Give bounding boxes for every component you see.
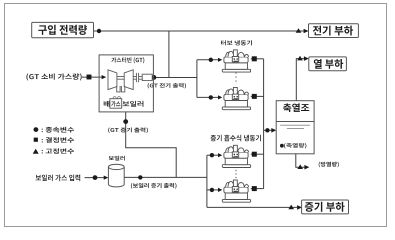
tank stored-heat dot (280, 144, 284, 148)
tank stored-heat label (284, 143, 306, 148)
turbo chiller 1 (222, 50, 250, 72)
box steam load (302, 200, 349, 214)
wire into storage tank (264, 129, 272, 131)
node absorption chiller 2 input (210, 188, 214, 192)
label boiler steam output (131, 183, 177, 189)
node purchased power (97, 29, 101, 33)
HRSG label boiler (123, 101, 144, 107)
marker triangle steam load (288, 205, 294, 210)
tank box (276, 101, 314, 154)
arrow into electric load (304, 29, 309, 34)
wire absorption chiller 2 input (207, 189, 218, 191)
node tank inlet (265, 128, 269, 132)
tank water line (276, 121, 314, 123)
arrow into heat load (304, 56, 309, 61)
wire turbo chiller input bus (196, 60, 198, 98)
node boiler steam output (138, 175, 142, 179)
ellipsis between turbo chillers (235, 72, 237, 82)
arrow into absorption 2 (218, 188, 222, 192)
legend decision-variable text (42, 137, 74, 143)
boiler cylinder (108, 164, 124, 187)
wire tank to heat load (296, 59, 304, 101)
arrow into tank (271, 128, 276, 133)
tank water shading (280, 125, 310, 128)
node GT electric output (152, 75, 157, 80)
wire turbo chiller 2 output (251, 95, 264, 97)
wire electric bus drop to GT output (168, 31, 170, 78)
legend decision-variable square (34, 138, 38, 142)
wire chilled water bus (263, 59, 265, 189)
label gas turbine (111, 57, 144, 63)
arrow into boiler (104, 176, 109, 180)
arrow into absorption 1 (218, 153, 222, 157)
GT compressor (108, 70, 117, 90)
marker square GT gas input (87, 75, 92, 80)
marker triangle heat load (297, 56, 303, 61)
HRSG label gas (111, 101, 120, 107)
legend fixed-variable triangle (33, 149, 39, 154)
node turbo chiller 1 input (209, 58, 213, 62)
node GT steam output (123, 119, 128, 124)
label boiler gas input (36, 175, 81, 182)
marker triangle heat discharge (297, 164, 303, 169)
marker square absorption 1 output (252, 152, 257, 157)
arrow into turbo 2 (218, 95, 222, 99)
node boiler gas input (93, 175, 98, 180)
wire absorption chiller 2 output (251, 188, 264, 190)
node turbo chiller 2 input (209, 95, 213, 99)
wire turbo chiller 1 output (251, 58, 264, 60)
wire steam bus horizontal (124, 176, 207, 178)
arrow into steam load (297, 205, 302, 210)
wire GT electric output (154, 77, 197, 79)
tank label (283, 103, 309, 112)
label turbo chillers (221, 40, 252, 45)
box purchased power (32, 22, 94, 37)
node absorption chiller 1 input (210, 153, 214, 157)
legend fixed-variable text (42, 148, 74, 154)
GT turbine wheel (124, 70, 133, 90)
arrow heat discharge (304, 165, 309, 170)
wire absorption chiller 1 output (251, 153, 264, 155)
GT generator (142, 74, 152, 80)
marker triangle electric load (296, 28, 302, 33)
label purchased power (38, 25, 87, 35)
label absorption chillers (211, 135, 261, 142)
absorption chiller 1 (222, 145, 250, 167)
label boiler (109, 156, 125, 161)
HRSG label bae (104, 101, 110, 107)
arrow into turbo 1 (218, 58, 222, 62)
ellipsis between absorption chillers (235, 170, 237, 179)
GT coupling flanges (136, 73, 138, 82)
legend dependent-variable text (42, 127, 74, 133)
wire GT gas input (82, 76, 102, 78)
wire steam load line (207, 206, 297, 208)
box heat load (309, 57, 347, 71)
label heat discharge (319, 162, 339, 168)
absorption chiller 2 (222, 180, 250, 202)
wire absorption chiller 1 input (207, 154, 218, 156)
label heat load (314, 59, 343, 69)
label GT gas consumption (26, 73, 81, 80)
box electric load (309, 24, 359, 38)
wire boiler input (85, 177, 105, 179)
label GT electric output (148, 83, 186, 88)
label GT steam output (108, 128, 148, 134)
marker square absorption 2 output (252, 186, 257, 191)
wire electric bus (purchased power to electric load) (94, 30, 304, 32)
legend dependent-variable dot (34, 127, 39, 132)
marker square turbo 1 output (252, 56, 257, 61)
GT exhaust ducts (117, 86, 125, 92)
label electric load (313, 26, 353, 36)
HRSG steam squiggles (113, 96, 121, 98)
turbo chiller 2 (222, 88, 250, 110)
wire tank heat discharge (296, 154, 305, 167)
wire GT steam output down and across (126, 112, 177, 177)
label steam load (305, 202, 345, 212)
wire turbo chiller 2 input (197, 96, 218, 98)
arrow into GT (102, 75, 107, 79)
HRSG box (110, 99, 122, 109)
GT shaft (117, 76, 142, 79)
wire absorption chiller input bus (206, 155, 208, 207)
wire turbo chiller 1 input (197, 59, 218, 61)
marker square turbo 2 output (252, 94, 257, 99)
box gas turbine GT (99, 55, 153, 112)
